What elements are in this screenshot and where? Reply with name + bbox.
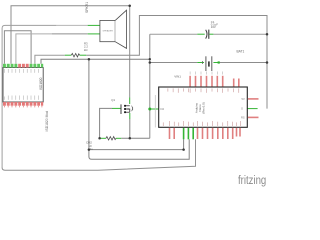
speaker - lead — [88, 33, 100, 35]
top pins — [190, 76, 239, 87]
wire speaker+ left loop to bottom — [2, 25, 88, 167]
label R2 — [86, 141, 94, 151]
R2 leads — [100, 137, 106, 139]
IC U1 Arduino Nano — [159, 72, 259, 140]
battery BAT1 — [206, 56, 212, 71]
wire U2 pin1 to pin8 loopback — [4, 31, 31, 64]
light ratsnest vertical left of arduino — [154, 95, 156, 127]
pin number specks above top pins — [190, 72, 223, 75]
capacitor C1 — [206, 30, 209, 39]
bottom pins red right — [198, 128, 241, 139]
svg-text:Q1: Q1 — [111, 98, 115, 102]
svg-text:1u: 1u — [90, 147, 94, 151]
wire R2 to VCC rail — [121, 137, 150, 139]
svg-text:kΩ: kΩ — [84, 48, 88, 52]
wire top rail down to Q1 drain — [129, 6, 131, 98]
wire U2 pin11 to VCC rail — [41, 59, 150, 64]
right pin labels — [241, 97, 245, 119]
mosfet gate lead — [112, 107, 121, 109]
green connected pin leads — [65, 25, 258, 138]
bottom pins red left — [170, 128, 175, 139]
svg-text:SPEAKER: SPEAKER — [103, 29, 114, 32]
IC U2 ISD1820 voice module — [3, 64, 43, 108]
speaker + lead — [88, 24, 100, 26]
wire C1 net — [150, 33, 198, 35]
mosfet source lead — [129, 113, 131, 119]
mosfet drain lead — [129, 98, 131, 105]
svg-text:SPKR1: SPKR1 — [85, 2, 89, 13]
right pins — [248, 98, 259, 100]
arduino right pin lead — [247, 108, 257, 110]
C1 leads — [197, 33, 204, 35]
svg-text:(Rev3.0): (Rev3.0) — [202, 102, 206, 114]
bottom pins green — [184, 128, 194, 140]
wire U2 pin2 to top rail — [11, 6, 130, 64]
battery leads — [197, 62, 204, 64]
resistor R2 — [106, 137, 116, 140]
svg-text:16V: 16V — [211, 25, 216, 29]
wire bottom run to U1 GND pin — [2, 139, 195, 170]
wire BAT1 net — [150, 62, 198, 64]
inner pin tick labels top — [168, 88, 239, 92]
wire Q1 gate riser — [100, 108, 112, 138]
inner pin labels top — [4, 69, 38, 73]
arduino left pin lead — [150, 108, 159, 110]
inner pin labels bottom — [4, 96, 38, 100]
wire Q1 source down — [129, 119, 131, 138]
bottom pin boxes — [3, 102, 43, 106]
svg-text:D2: D2 — [161, 107, 165, 111]
wire U2 pin4 to speaker- — [16, 34, 52, 64]
svg-text:VIN1: VIN1 — [174, 75, 181, 79]
label R3 — [84, 41, 88, 51]
top pin boxes — [3, 64, 43, 68]
wire node A down to U1 pin5 — [89, 59, 189, 159]
svg-text:fritzing: fritzing — [238, 174, 266, 187]
wire node B to U1 pin4 — [89, 139, 184, 149]
center text rotated — [195, 102, 206, 114]
R3 leads — [65, 54, 72, 56]
svg-text:ISD1820: ISD1820 — [39, 77, 43, 90]
resistor R3 — [71, 54, 79, 57]
speaker SPKR1 — [100, 10, 127, 48]
svg-text:ISD1820 Mod: ISD1820 Mod — [45, 111, 49, 132]
transistor Q1 mosfet — [121, 104, 133, 114]
svg-text:BAT1: BAT1 — [237, 49, 245, 53]
green junction dot arduino left — [148, 108, 151, 111]
svg-text:RS: RS — [241, 115, 245, 119]
label C1 — [211, 20, 218, 29]
wire U2 pin9 to R3 — [35, 55, 65, 64]
svg-text:5V: 5V — [242, 97, 245, 101]
inner pin tick labels bottom — [163, 121, 240, 126]
wire VCC rail vertical — [149, 34, 151, 138]
svg-text:G: G — [241, 107, 243, 111]
